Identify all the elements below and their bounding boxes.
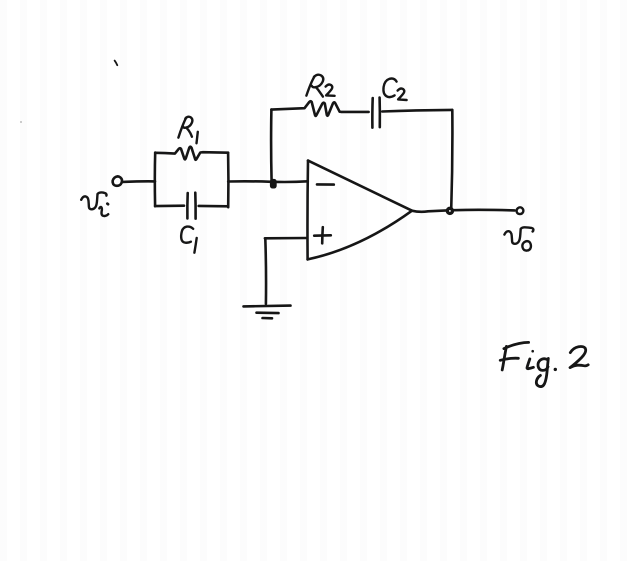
op-amp non-inverting input label (plus) <box>314 227 331 243</box>
node B: output junction dot <box>447 208 452 213</box>
op-amp inverting input label (minus) <box>317 183 334 186</box>
wire: feedback right vertical (R2/C2 down to output node B) <box>451 110 452 210</box>
node: R1/C1 right junction (vertical bar) <box>227 153 230 208</box>
label R1 <box>178 117 197 144</box>
wire: R1/C1 to op-amp inverting input (through node A) <box>228 180 308 183</box>
wire: op-amp output to node B <box>412 210 447 211</box>
label R2 <box>306 75 334 97</box>
op-amp U1 <box>307 161 411 260</box>
node A: inverting input junction dot <box>270 179 277 189</box>
label C2 <box>383 78 406 100</box>
capacitor C2 <box>372 98 452 128</box>
stray pen tick <box>115 61 118 66</box>
capacitor C1 <box>155 193 228 219</box>
stray faint dot <box>20 121 22 123</box>
wire: node B to output terminal <box>454 209 515 212</box>
node: R1/C1 left junction (vertical bar) <box>154 153 157 207</box>
label Fig. 2 <box>500 342 588 386</box>
wire: feedback left vertical (node A up to R2) <box>270 110 273 182</box>
wire: ground stem vertical <box>264 238 267 303</box>
resistor R2 <box>271 101 368 116</box>
wire: non-inverting input to ground stem <box>265 237 307 240</box>
output terminal vo <box>517 207 524 214</box>
label vo <box>504 227 533 250</box>
wire: input terminal to R1/C1 left node <box>122 180 155 183</box>
label vi <box>81 192 108 216</box>
input terminal vi <box>113 176 122 185</box>
ground <box>244 306 291 319</box>
label C1 <box>181 227 197 253</box>
resistor R1 <box>155 147 228 160</box>
